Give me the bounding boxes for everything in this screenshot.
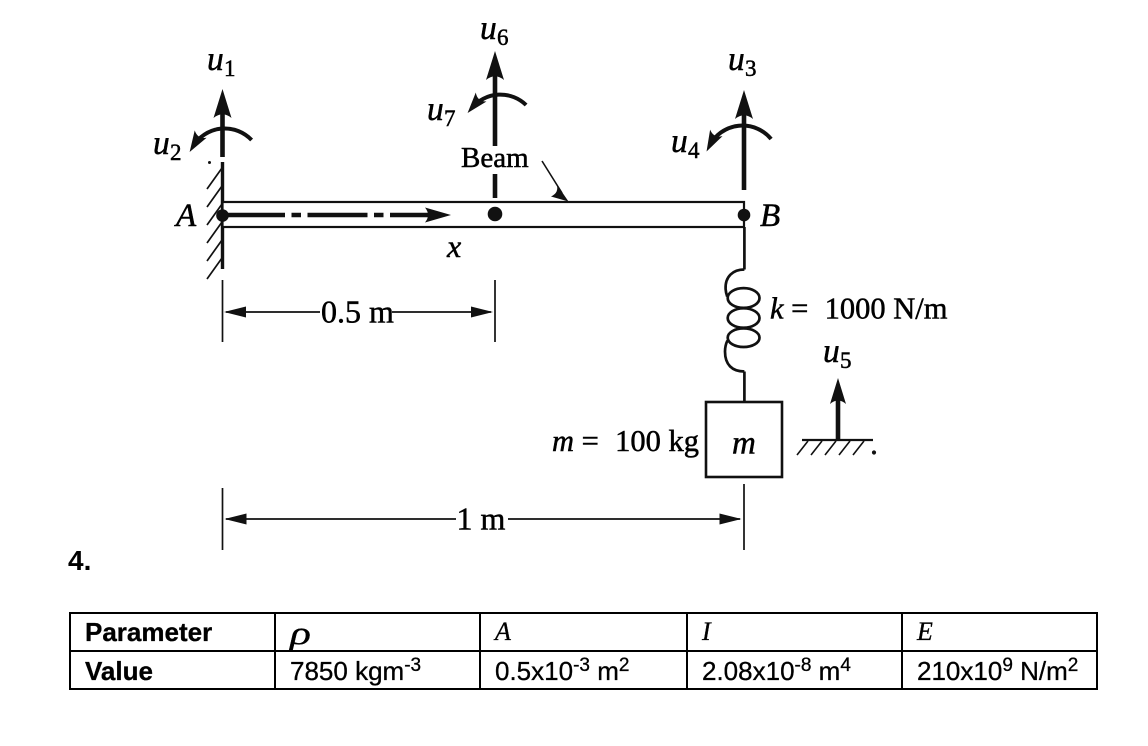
svg-text:4: 4 [688,138,700,163]
node A dot [216,209,229,222]
u3 arrow [735,90,753,190]
dimension extension lines 0.5 m [222,280,224,342]
ground hatching [797,441,864,455]
node B dot [738,209,751,222]
Beam pointer arrow [542,161,569,202]
u4 rotation arc [710,126,771,146]
label 0.5 m (white bg) [320,294,394,330]
spring k upper lead [743,227,746,270]
svg-text:u: u [480,10,497,47]
svg-text:1 m: 1 m [457,501,506,537]
wall top speck [208,161,211,164]
u1 arrow [214,89,232,157]
wall hatching [207,168,222,279]
svg-text:u: u [728,41,745,78]
svg-text:A: A [174,198,197,234]
beam axial arrowhead [425,208,451,223]
wall at A [221,162,224,269]
u2 rotation arc [193,128,251,146]
u5 arrow [830,378,846,440]
svg-text:5: 5 [840,348,852,373]
beam outline [223,202,745,227]
u6 arrow [486,51,504,198]
svg-text:x: x [446,228,461,264]
beam axial dash-dot arrow [225,213,430,218]
svg-text:u: u [153,125,170,162]
svg-text:m: m [732,426,756,462]
spring k coil [725,270,759,372]
svg-text:3: 3 [745,56,757,81]
svg-text:Beam: Beam [461,142,529,174]
spring k lower lead [743,372,746,403]
mass box [706,402,782,477]
dimension extension lines 1 m [222,488,224,550]
label 1 m (white bg) [456,501,508,537]
svg-text:m = 100 kg: m = 100 kg [552,424,699,458]
parameter table [69,612,1098,690]
svg-text:u: u [823,333,840,370]
midpoint node dot [488,207,503,222]
svg-text:4.: 4. [68,545,91,576]
svg-text:6: 6 [497,25,509,50]
svg-text:k = 1000 N/m: k = 1000 N/m [770,292,948,326]
svg-text:u: u [427,91,444,128]
ground dot [872,450,876,454]
dimension line 0.5 m [224,307,493,318]
u7 rotation arc [472,95,526,108]
svg-text:1: 1 [224,56,236,81]
svg-text:0.5 m: 0.5 m [321,294,394,330]
ground line [802,439,873,441]
svg-text:B: B [760,198,780,234]
svg-text:u: u [207,41,224,78]
svg-text:2: 2 [170,140,182,165]
svg-text:7: 7 [444,106,456,131]
dimension line 1 m [225,514,742,525]
svg-text:u: u [671,123,688,160]
